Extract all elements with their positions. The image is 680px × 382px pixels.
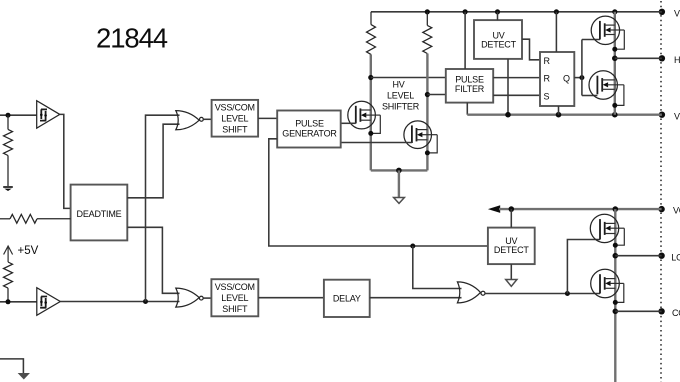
- resistor R5 SD pullup: [4, 262, 13, 302]
- node output stage drain tap: [612, 9, 617, 14]
- wire VSS to ground: [0, 359, 23, 374]
- wire to HO pin: [615, 57, 662, 59]
- wire R1 to mosfet Q1 drain: [370, 54, 372, 170]
- wire pulse generator enable from UV: [269, 139, 488, 246]
- wire to LO pin: [615, 255, 661, 257]
- pin COM: [658, 308, 680, 318]
- wire UV detect bottom to VS rail: [507, 59, 509, 115]
- wire UV branch to gate G3: [413, 246, 462, 289]
- node Q2 drain to pulse filter: [425, 92, 430, 97]
- svg-text:HV: HV: [392, 80, 404, 90]
- buffer U1 schmitt IN: [37, 101, 60, 129]
- wire UV detect out to latch R1: [522, 39, 540, 60]
- transistor Q5 low side sourcing: [590, 214, 624, 248]
- wire VB top rail: [371, 11, 662, 13]
- box PULSE FILTER: [446, 69, 493, 103]
- node latch supply tap: [554, 9, 559, 14]
- node COM takeoff: [613, 309, 619, 315]
- pin HO: [659, 55, 680, 65]
- resistor R1 HV shifter load A: [367, 12, 376, 55]
- box UV DETECT high side: [474, 20, 522, 59]
- wire high side output bus: [614, 12, 616, 115]
- IC boundary dotted line: [660, 1, 662, 382]
- node HO takeoff: [612, 56, 618, 62]
- svg-text:LEVEL: LEVEL: [221, 114, 248, 124]
- wire G1 to level shift 1: [203, 118, 211, 120]
- svg-text:SHIFT: SHIFT: [222, 125, 248, 135]
- ground arrow UV detect: [506, 280, 517, 287]
- buffer U2 schmitt SD: [37, 288, 61, 316]
- transistor Q3 high side sourcing: [591, 16, 624, 52]
- node SD to upper gate branch: [143, 299, 148, 304]
- wire delay to gate G3: [370, 297, 462, 299]
- svg-text:DELAY: DELAY: [333, 294, 361, 304]
- box DEADTIME: [71, 185, 128, 241]
- resistor R4 deadtime set: [0, 214, 71, 223]
- svg-text:+5V: +5V: [18, 245, 39, 257]
- svg-text:VB: VB: [674, 8, 680, 18]
- box VSS/COM LEVEL SHIFT high: [212, 100, 259, 137]
- node LO takeoff: [613, 253, 619, 259]
- box DELAY: [324, 280, 370, 317]
- gate G2 NOR low side: [176, 288, 203, 307]
- supply arrow +5V: [4, 246, 13, 262]
- node latch on VS rail: [556, 112, 562, 118]
- svg-text:VS: VS: [674, 111, 680, 121]
- wire UV detect top: [510, 209, 512, 228]
- svg-text:VSS/COM: VSS/COM: [215, 103, 255, 113]
- arrow VCC sense: [488, 205, 500, 213]
- wire R2 to mosfet Q2 drain: [426, 54, 428, 171]
- pin LO: [658, 252, 680, 262]
- wire pulse filter input A: [371, 77, 446, 79]
- wire to COM pin: [615, 310, 661, 312]
- svg-text:LEVEL: LEVEL: [387, 91, 414, 101]
- wire latch Q output: [574, 77, 582, 79]
- transistor Q1 HV level shift A: [348, 101, 380, 136]
- svg-text:R: R: [544, 74, 551, 84]
- box PULSE GENERATOR: [277, 111, 341, 148]
- wire pulse filter out S: [493, 94, 540, 96]
- transistor Q6 low side sinking: [591, 269, 624, 305]
- node VCC to output bus: [613, 206, 619, 212]
- svg-text:GENERATOR: GENERATOR: [282, 129, 337, 139]
- wire SD input: [0, 301, 37, 303]
- wire SD branch up to gate G1: [146, 115, 180, 301]
- box latch R R S Q: [540, 52, 574, 106]
- wire pulse filter supply: [464, 12, 466, 69]
- svg-text:COM: COM: [672, 308, 680, 318]
- pin VB: [659, 8, 680, 18]
- gate G3 NOR output: [457, 282, 485, 303]
- svg-text:SHIFTER: SHIFTER: [382, 102, 420, 112]
- pin VCC: [658, 206, 680, 216]
- wire G3 output to low side gates: [485, 293, 600, 295]
- svg-text:S: S: [544, 91, 550, 101]
- wire Q1 gate from pulse generator: [341, 122, 356, 124]
- wire deadtime output A to gate G1: [127, 124, 179, 198]
- svg-text:DETECT: DETECT: [494, 245, 530, 255]
- svg-text:DETECT: DETECT: [481, 40, 517, 50]
- wire VCC rail: [499, 208, 662, 210]
- box UV DETECT low side: [488, 228, 535, 265]
- svg-text:LO: LO: [671, 252, 680, 262]
- ground symbol input pulldown: [3, 187, 13, 191]
- resistor R3 input pulldown: [4, 115, 13, 186]
- node output stage on VS rail: [612, 112, 618, 118]
- svg-text:HO: HO: [674, 55, 680, 65]
- wire IN input: [0, 114, 37, 116]
- wire Q4 gate lead: [582, 95, 598, 97]
- wire deadtime output B to gate G2: [127, 227, 179, 293]
- wire latch to VS rail: [558, 106, 560, 115]
- node UV enable branch: [410, 244, 415, 249]
- resistor R2 HV shifter load B: [423, 12, 432, 54]
- node UV detect VCC tap: [509, 206, 515, 212]
- svg-text:R: R: [544, 56, 551, 66]
- wire level shift 1 to pulse generator: [258, 117, 277, 119]
- node low side gate bus: [565, 291, 570, 296]
- transistor Q2 HV level shift B: [404, 121, 437, 156]
- svg-text:LEVEL: LEVEL: [221, 293, 248, 303]
- wire G2 to level shift 2: [203, 297, 211, 299]
- wire pulse filter out R: [493, 77, 540, 79]
- transistor Q4 high side sinking: [589, 71, 624, 108]
- node resistor R2 tap on VB rail: [425, 9, 430, 14]
- wire low side output bus: [614, 209, 616, 382]
- svg-text:FILTER: FILTER: [455, 84, 485, 94]
- ground arrow VSS: [19, 374, 29, 379]
- wire pulse filter input B: [427, 94, 445, 96]
- node UV detect on VS rail: [505, 112, 511, 118]
- wire U2 output to gate G2: [60, 301, 179, 303]
- node pulse filter supply tap: [463, 9, 468, 14]
- svg-text:VCC: VCC: [673, 206, 680, 216]
- wire Q2 gate from pulse generator: [341, 142, 412, 144]
- svg-text:VSS/COM: VSS/COM: [215, 282, 255, 292]
- wire VS rail: [467, 113, 662, 115]
- wire low side gate bus up: [567, 240, 600, 294]
- node Q1 drain to pulse filter: [368, 75, 373, 80]
- wire high side gate bus: [581, 40, 583, 96]
- wire to HV shifter ground arrow: [398, 170, 400, 197]
- svg-text:21844: 21844: [96, 23, 168, 54]
- wire COM rail of HV shifter: [371, 169, 428, 171]
- node HV shifter ground: [396, 168, 402, 174]
- box VSS/COM LEVEL SHIFT low: [211, 279, 258, 316]
- node SD pullup junction: [6, 299, 11, 304]
- text HV LEVEL SHIFTER: [382, 80, 420, 112]
- svg-text:DEADTIME: DEADTIME: [77, 209, 122, 219]
- node UV detect supply tap: [495, 9, 500, 14]
- wire UV detect supply: [497, 12, 499, 20]
- wire Q3 gate lead: [582, 39, 600, 41]
- wire U1 output to deadtime: [60, 114, 71, 208]
- gate G1 NOR high side: [176, 111, 204, 130]
- svg-text:PULSE: PULSE: [295, 119, 324, 129]
- wire latch supply: [555, 12, 557, 52]
- svg-text:Q: Q: [563, 74, 570, 84]
- node IN input: [6, 113, 11, 118]
- svg-text:SHIFT: SHIFT: [222, 304, 248, 314]
- wire pulse filter bottom to VS rail: [466, 103, 468, 115]
- svg-text:PULSE: PULSE: [455, 75, 484, 85]
- wire UV detect to COM arrow: [510, 264, 512, 279]
- ground arrow HV shifter: [394, 198, 405, 204]
- wire level shift 2 to delay: [258, 297, 324, 299]
- node Q output gate bus: [579, 75, 584, 80]
- pin VS: [659, 111, 680, 121]
